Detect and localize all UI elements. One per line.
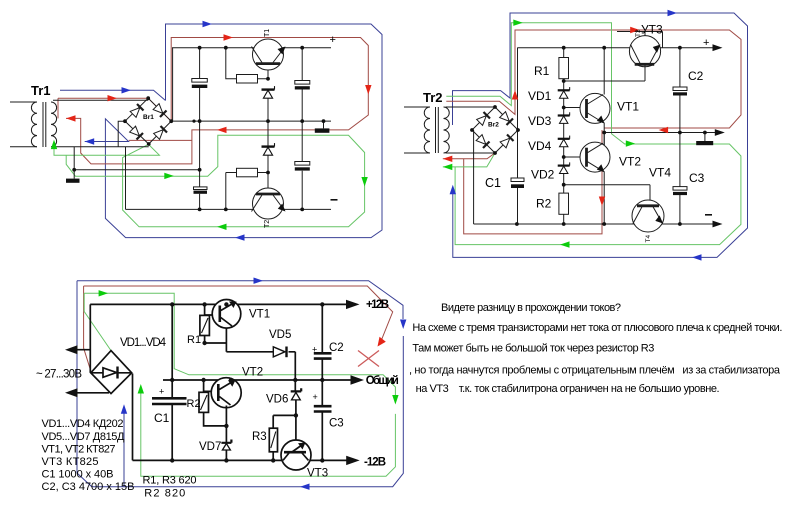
svg-text:+: +	[159, 387, 164, 397]
svg-text:VT2: VT2	[242, 367, 263, 379]
svg-text:C1: C1	[154, 411, 170, 425]
svg-text:VD7: VD7	[199, 441, 221, 453]
svg-text:+: +	[312, 345, 317, 355]
svg-text:УТ3: УТ3	[641, 23, 663, 37]
svg-text:С2, С3 4700 х 15В: С2, С3 4700 х 15В	[42, 481, 135, 493]
svg-text:T1: T1	[264, 29, 271, 37]
svg-text:VD1: VD1	[528, 89, 552, 103]
svg-text:VD5...VD7 Д815Д: VD5...VD7 Д815Д	[42, 431, 126, 443]
svg-text:VT3: VT3	[307, 468, 328, 480]
svg-text:T3: T3	[635, 29, 642, 37]
svg-text:VT1: VT1	[617, 100, 639, 114]
svg-text:Br2: Br2	[488, 122, 499, 129]
svg-text:Br1: Br1	[143, 114, 154, 121]
svg-text:VT3 КТ825: VT3 КТ825	[42, 456, 99, 468]
svg-text:, но тогда начнутся проблемы с: , но тогда начнутся проблемы с отрицател…	[409, 365, 781, 377]
svg-text:VD3: VD3	[528, 114, 552, 128]
svg-text:C3: C3	[689, 171, 705, 185]
svg-text:VD5: VD5	[269, 329, 291, 341]
svg-text:R3: R3	[252, 431, 267, 443]
svg-text:C3: C3	[329, 418, 344, 430]
svg-text:VT1, VT2 КТ827: VT1, VT2 КТ827	[42, 443, 116, 455]
svg-text:R2: R2	[536, 197, 552, 211]
svg-text:На схеме с тремя транзисторами: На схеме с тремя транзисторами нет тока …	[412, 322, 782, 334]
svg-text:VD4: VD4	[528, 139, 552, 153]
svg-text:C2: C2	[329, 342, 344, 354]
svg-text:+: +	[313, 392, 318, 402]
svg-text:Видете разницу в прохождении т: Видете разницу в прохождении токов?	[441, 302, 621, 314]
svg-text:R1: R1	[187, 334, 201, 346]
svg-text:VD2: VD2	[531, 168, 555, 182]
svg-text:-12В: -12В	[364, 457, 386, 469]
svg-text:Tr2: Tr2	[423, 90, 443, 105]
svg-text:VD1...VD4 КД202: VD1...VD4 КД202	[42, 418, 124, 430]
svg-text:С1 1000 х 40В: С1 1000 х 40В	[42, 468, 114, 480]
svg-text:R2 820: R2 820	[144, 488, 185, 500]
svg-text:R1, R3 620: R1, R3 620	[143, 475, 197, 487]
svg-text:~ 27...30В: ~ 27...30В	[36, 369, 82, 381]
svg-text:+: +	[330, 34, 336, 46]
svg-text:T4: T4	[645, 235, 652, 243]
svg-text:T2: T2	[264, 220, 271, 228]
svg-text:VD1...VD4: VD1...VD4	[120, 337, 167, 349]
svg-text:R1: R1	[534, 64, 550, 78]
svg-text:Там может быть не большой ток: Там может быть не большой ток через рези…	[412, 343, 654, 355]
svg-text:Tr1: Tr1	[31, 83, 51, 98]
svg-text:C2: C2	[688, 69, 704, 83]
svg-text:VT1: VT1	[249, 309, 270, 321]
svg-text:Общий: Общий	[366, 375, 399, 387]
svg-text:VT2: VT2	[619, 155, 641, 169]
svg-text:+12В: +12В	[366, 299, 389, 311]
svg-text:VD6: VD6	[266, 394, 288, 406]
svg-text:+: +	[703, 37, 709, 49]
svg-text:на VT3 т.к. ток стабилитрон: на VT3 т.к. ток стабилитрона ограничен н…	[416, 383, 720, 395]
svg-text:VT4: VT4	[649, 166, 671, 180]
svg-text:R2: R2	[187, 398, 201, 410]
svg-text:C1: C1	[485, 176, 501, 190]
